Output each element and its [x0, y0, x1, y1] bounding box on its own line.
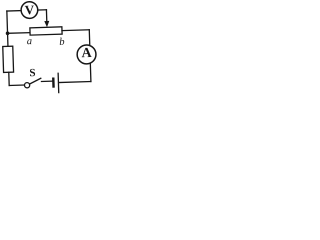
wire left rail upper — [7, 11, 8, 46]
wire wiper drop — [45, 10, 47, 23]
wire switch contact to battery — [41, 80, 52, 82]
resistor R vertical — [3, 46, 14, 72]
wire bottom right to battery — [59, 82, 91, 83]
wiper arrowhead — [44, 21, 49, 27]
svg-text:b: b — [59, 37, 65, 48]
svg-text:a: a — [27, 36, 33, 47]
rheostat body — [30, 27, 62, 35]
wire top rail through voltmeter — [7, 10, 47, 11]
wire bottom left to switch — [9, 84, 24, 86]
wire junction to rheostat — [8, 32, 30, 35]
node junction dot — [6, 31, 10, 35]
wire rheostat to right rail — [62, 29, 89, 32]
wire left rail lower — [8, 72, 10, 85]
switch blade — [29, 78, 41, 84]
battery long plate — [57, 73, 60, 94]
switch pivot — [24, 83, 29, 88]
ammeter A — [77, 45, 96, 64]
voltmeter V — [21, 1, 38, 18]
svg-text:V: V — [24, 2, 34, 17]
battery short plate — [52, 78, 55, 88]
svg-text:A: A — [81, 46, 92, 61]
wire right rail — [89, 30, 91, 82]
svg-text:S: S — [29, 67, 35, 79]
